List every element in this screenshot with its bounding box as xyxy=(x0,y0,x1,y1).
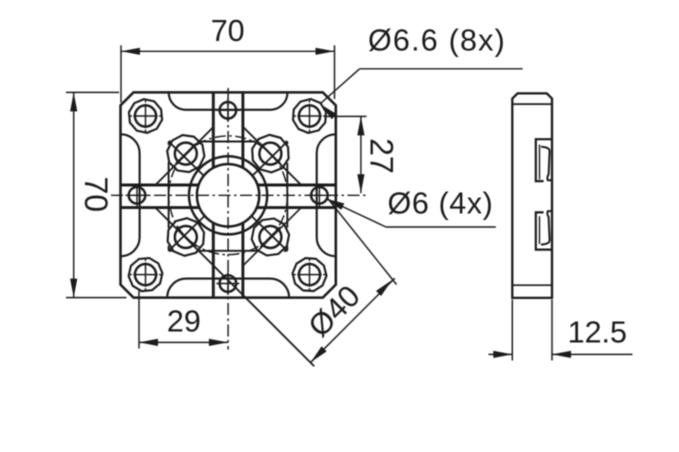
svg-text:12.5: 12.5 xyxy=(568,316,627,350)
svg-text:27: 27 xyxy=(363,138,399,174)
svg-text:29: 29 xyxy=(167,305,201,339)
svg-text:70: 70 xyxy=(211,14,245,48)
svg-text:Ø6.6 (8x): Ø6.6 (8x) xyxy=(368,24,506,58)
svg-text:70: 70 xyxy=(78,177,114,213)
svg-text:Ø6 (4x): Ø6 (4x) xyxy=(388,187,494,221)
